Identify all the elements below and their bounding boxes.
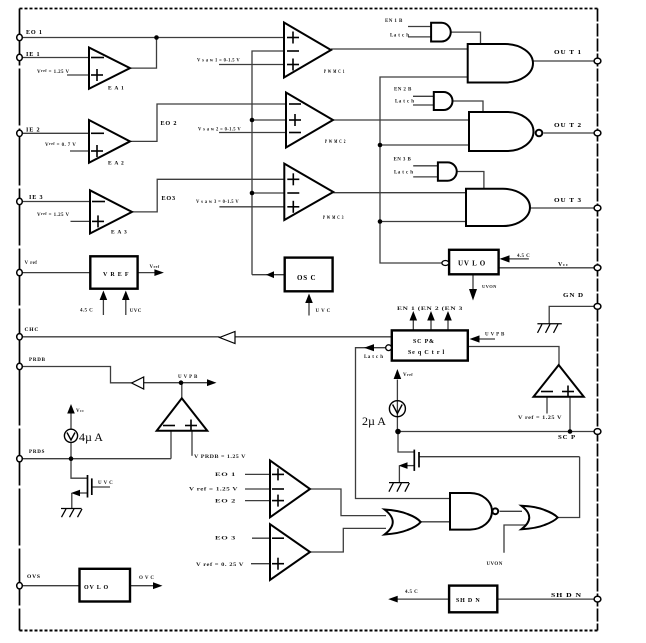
svg-text:V s a w 2 = 0-1.5 V: V s a w 2 = 0-1.5 V <box>198 128 241 133</box>
svg-text:U V P B: U V P B <box>178 375 198 380</box>
svg-text:U V C: U V C <box>98 481 113 486</box>
svg-text:UV L O: UV L O <box>458 260 486 268</box>
svg-text:E A 1: E A 1 <box>108 86 125 92</box>
svg-text:SC P&: SC P& <box>413 339 435 345</box>
svg-text:OS C: OS C <box>297 274 316 282</box>
svg-text:V s a w 1 = 0-1.5 V: V s a w 1 = 0-1.5 V <box>197 59 240 64</box>
svg-text:4.5 C: 4.5 C <box>517 254 530 259</box>
svg-text:U V P B: U V P B <box>485 333 505 338</box>
svg-text:V ref = 1.25 V: V ref = 1.25 V <box>518 416 562 421</box>
svg-text:E A 2: E A 2 <box>108 161 125 167</box>
svg-text:UVON: UVON <box>482 284 497 289</box>
svg-text:La t c h: La t c h <box>390 34 409 39</box>
svg-text:UVC: UVC <box>130 309 142 314</box>
svg-text:IE 3: IE 3 <box>29 194 43 201</box>
svg-text:EN 1 B: EN 1 B <box>385 19 403 24</box>
svg-text:P W M C 1: P W M C 1 <box>324 70 345 75</box>
svg-text:UVON: UVON <box>487 562 503 567</box>
svg-text:EO 1: EO 1 <box>26 29 43 36</box>
svg-text:La t c h: La t c h <box>364 355 383 360</box>
svg-text:V ref = 1.25 V: V ref = 1.25 V <box>189 488 238 493</box>
svg-text:OU T 2: OU T 2 <box>554 122 582 129</box>
svg-text:PRDB: PRDB <box>29 358 46 363</box>
svg-text:GN D: GN D <box>563 292 584 299</box>
svg-text:EO 2: EO 2 <box>215 500 236 505</box>
svg-text:V ref: V ref <box>25 261 38 266</box>
svg-text:U V C: U V C <box>316 309 331 314</box>
svg-text:OU T 1: OU T 1 <box>554 49 582 56</box>
svg-text:OU T 3: OU T 3 <box>554 197 582 204</box>
svg-text:EO 1: EO 1 <box>215 473 236 478</box>
svg-text:SC P: SC P <box>558 434 576 441</box>
svg-text:Vref: Vref <box>403 372 413 378</box>
svg-text:4.5 C: 4.5 C <box>405 590 418 595</box>
svg-text:Vcc: Vcc <box>558 262 569 268</box>
svg-text:2µ A: 2µ A <box>362 414 386 428</box>
svg-text:EO 2: EO 2 <box>161 120 178 127</box>
svg-text:4.5 C: 4.5 C <box>80 309 93 314</box>
svg-text:EN 1 (EN 2 (EN 3: EN 1 (EN 2 (EN 3 <box>397 307 463 312</box>
svg-text:Vref: Vref <box>150 264 160 270</box>
svg-text:O V C: O V C <box>139 576 154 581</box>
svg-text:La t c h: La t c h <box>395 100 414 105</box>
svg-text:EO3: EO3 <box>162 195 176 202</box>
svg-text:OVS: OVS <box>27 574 41 580</box>
svg-text:V R E F: V R E F <box>103 272 129 278</box>
svg-text:EN 2 B: EN 2 B <box>394 88 412 93</box>
svg-text:P W M C 3: P W M C 3 <box>323 216 344 221</box>
svg-text:CHC: CHC <box>25 327 40 333</box>
svg-text:Vref = 1.25 V: Vref = 1.25 V <box>37 68 70 75</box>
svg-text:PRDS: PRDS <box>29 450 45 455</box>
svg-text:P W M C 2: P W M C 2 <box>325 140 346 145</box>
svg-text:4µ A: 4µ A <box>79 430 103 444</box>
svg-text:SH D N: SH D N <box>551 592 582 599</box>
svg-text:La t c h: La t c h <box>394 171 413 176</box>
svg-text:E A 3: E A 3 <box>111 230 128 236</box>
svg-text:Se q C t r l: Se q C t r l <box>408 350 445 356</box>
svg-text:V PRDB = 1.25 V: V PRDB = 1.25 V <box>194 455 246 460</box>
svg-text:V s a w 3 = 0-1.5 V: V s a w 3 = 0-1.5 V <box>196 200 239 205</box>
svg-text:OV L O: OV L O <box>84 585 109 591</box>
svg-text:EN 3 B: EN 3 B <box>394 158 412 163</box>
svg-text:Vref = 1.25 V: Vref = 1.25 V <box>37 211 70 218</box>
svg-text:EO 3: EO 3 <box>215 537 236 542</box>
svg-text:IE 2: IE 2 <box>26 127 40 134</box>
svg-text:V ref = 0. 25 V: V ref = 0. 25 V <box>196 563 244 568</box>
svg-text:IE 1: IE 1 <box>26 51 40 58</box>
svg-text:SH D N: SH D N <box>456 598 480 604</box>
svg-text:Vref = 0. 7 V: Vref = 0. 7 V <box>45 141 76 148</box>
svg-text:Vcc: Vcc <box>76 408 84 414</box>
